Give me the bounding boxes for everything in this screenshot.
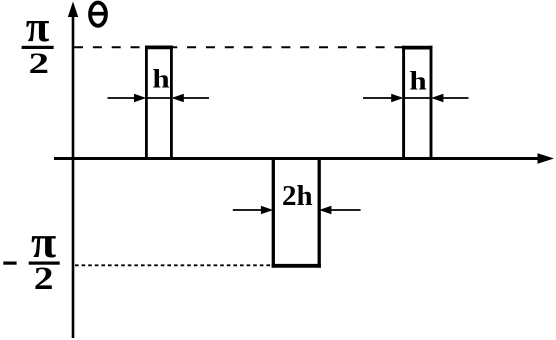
negative pulse left arrowhead (261, 206, 273, 214)
theta axis label (90, 3, 106, 26)
pulse 1 left arrowhead (134, 94, 146, 102)
pi/2 level dashed line (74, 46, 404, 48)
pulse 2 dimension line right (440, 97, 469, 99)
negative pulse (272, 159, 321, 268)
pulse 1 dimension line through pulse (146, 97, 171, 99)
-pi/2 level dotted line (75, 264, 272, 266)
positive pulse 1 (145, 46, 173, 159)
negative pulse right arrowhead (319, 206, 331, 214)
pulse 1 dimension line right (180, 97, 209, 99)
svg-text:2: 2 (34, 260, 54, 296)
svg-text:2: 2 (29, 47, 50, 80)
pulse 2 dimension line through pulse (404, 97, 431, 99)
pulse 2 right arrowhead (431, 94, 443, 102)
svg-text:h: h (152, 65, 169, 94)
negative pulse dimension line right (328, 209, 361, 211)
svg-text:π: π (26, 4, 50, 51)
svg-text:h: h (409, 67, 426, 96)
x-axis (54, 157, 540, 160)
pulse 1 right arrowhead (172, 94, 184, 102)
-pi/2 label: minus sign (3, 262, 16, 265)
positive pulse 2 (402, 46, 432, 159)
svg-text:2h: 2h (282, 180, 313, 212)
pi/2 label: fraction bar (22, 46, 54, 49)
-pi/2 label: fraction bar (29, 262, 60, 265)
x-axis arrowhead (538, 153, 555, 163)
y-axis (72, 14, 75, 338)
negative pulse dimension line left (233, 209, 264, 211)
y-axis arrowhead (68, 2, 78, 18)
pulse 1 dimension line left (108, 97, 138, 99)
pulse 2 left arrowhead (391, 94, 403, 102)
pulse 2 dimension line left (363, 97, 394, 99)
